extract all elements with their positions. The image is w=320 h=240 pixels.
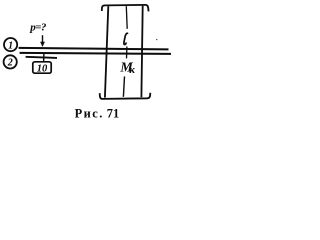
column right wall: [141, 6, 142, 98]
node circle 2: [4, 55, 17, 68]
box 10: [33, 62, 51, 75]
svg-text:к: к: [129, 64, 135, 76]
svg-text:2: 2: [7, 58, 13, 69]
label l: [124, 33, 128, 44]
column bottom cap: [100, 93, 151, 99]
centre line upper segment: [125, 6, 128, 29]
svg-text:Рис.: Рис.: [75, 107, 104, 121]
arrow pressure down: [40, 35, 45, 47]
svg-text:71: 71: [107, 107, 119, 121]
wire 2 (lower line): [20, 53, 171, 54]
column left wall: [105, 6, 108, 97]
svg-text:1: 1: [8, 40, 13, 51]
svg-text:p=?: p=?: [29, 21, 47, 33]
centre line middle segment: [126, 47, 128, 59]
wire branch segment: [26, 57, 57, 58]
label Mk: [119, 61, 135, 76]
node circle 1: [4, 38, 17, 51]
paper speckle: [156, 39, 157, 40]
stub wire to box: [43, 54, 45, 62]
wire 1 (upper line): [19, 48, 169, 50]
centre line lower segment: [123, 76, 124, 96]
column top cap: [102, 5, 149, 11]
svg-text:10: 10: [37, 63, 48, 74]
